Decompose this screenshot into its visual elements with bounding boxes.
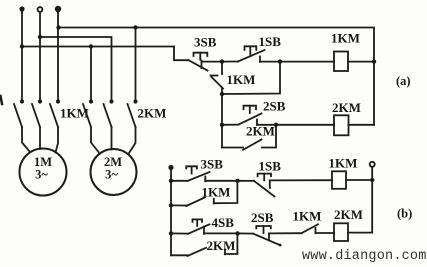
svg-text:(a): (a) (396, 74, 411, 88)
wire left rail b (170, 169, 172, 255)
wire L3 drop (57, 11, 59, 101)
wire 3SB to node C (205, 180, 237, 182)
wire coil 1KM b to rail (346, 179, 372, 181)
svg-text:2KM: 2KM (138, 106, 167, 121)
node b row2 (169, 203, 173, 207)
pushbutton 3SB circuit a (189, 53, 208, 71)
node A (220, 59, 224, 63)
svg-text:3SB: 3SB (201, 157, 224, 172)
svg-text:2SB: 2SB (263, 99, 286, 114)
wire top rail to circuit a (59, 28, 375, 125)
wire node E to coil 2KM (276, 124, 334, 126)
contactor 2KM main pole1 (83, 99, 99, 152)
coil 1KM circuit a (334, 52, 348, 72)
terminal left circuit b (168, 165, 173, 170)
svg-text:2KM: 2KM (332, 100, 361, 115)
wire coil 1KM to right rail (348, 61, 374, 63)
svg-text:4SB: 4SB (212, 215, 235, 230)
terminal L2 (38, 7, 43, 12)
node B (278, 59, 282, 63)
svg-text:2KM: 2KM (207, 238, 236, 253)
svg-text:2KM: 2KM (334, 207, 363, 222)
node 2KM pole3 tap (133, 25, 137, 29)
wire coil 2KM to right rail (349, 124, 375, 126)
wire L1 drop (21, 11, 23, 101)
wire 2SB to contact 1KM b (269, 232, 302, 234)
pushbutton 2SB circuit a (222, 106, 262, 125)
wire coil 2KM b to rail (348, 232, 372, 234)
svg-text:1KM: 1KM (227, 72, 256, 87)
wire L2 drop (39, 12, 41, 101)
node L1 tap (20, 44, 24, 48)
contact 1KM aux circuit a (211, 62, 224, 94)
contact 2KM aux circuit a (222, 125, 276, 150)
coil 2KM circuit b (334, 223, 348, 241)
pushbutton 3SB circuit b (171, 166, 210, 181)
terminal L1 (19, 6, 24, 11)
node D (235, 231, 239, 235)
svg-text:2KM: 2KM (246, 124, 275, 139)
wire 2M pole3 drop (135, 28, 137, 101)
pushbutton 4SB circuit b (171, 219, 210, 233)
contactor 1KM main pole3 (50, 99, 60, 152)
svg-text:1KM: 1KM (293, 209, 322, 224)
svg-text:1KM: 1KM (202, 185, 231, 200)
wire 2M pole1 drop (90, 47, 92, 101)
wire L2 branch (40, 37, 112, 101)
svg-text:(b): (b) (397, 207, 412, 221)
wire 1SB to node B (260, 61, 280, 63)
pushbutton 2SB circuit b (238, 226, 282, 246)
motor 1M (20, 149, 67, 196)
terminal right circuit b (370, 162, 375, 167)
pushbutton 1SB circuit b (238, 174, 275, 197)
node b row1 (169, 179, 173, 183)
node L3 tap (56, 25, 60, 29)
svg-text:2SB: 2SB (251, 210, 274, 225)
wire node B to coil 1KM (280, 61, 334, 63)
node E (274, 123, 278, 127)
wire feed to 3SB (174, 47, 189, 61)
contactor 2KM main pole3 (128, 99, 138, 153)
svg-text:1SB: 1SB (259, 34, 282, 49)
svg-text:www.diangon.com: www.diangon.com (302, 249, 427, 264)
node 2KM pole1 tap (89, 44, 93, 48)
wire L1 branch (22, 46, 174, 48)
contact 1KM aux circuit b (171, 181, 237, 206)
wire node to row 2SB (221, 94, 223, 125)
contactor 2KM main pole2 (104, 99, 114, 149)
node under 1KM aux (220, 92, 224, 96)
contactor 1KM main pole2 (32, 99, 42, 149)
scan smudge left edge (1, 96, 3, 104)
node right rail a (372, 59, 376, 63)
node C (235, 179, 239, 183)
svg-text:3~: 3~ (105, 168, 118, 182)
svg-text:3~: 3~ (35, 168, 48, 182)
pushbutton 1SB circuit a (222, 46, 265, 62)
coil 2KM circuit a (334, 115, 349, 135)
wire 1SB to coil 1KM b (270, 179, 332, 181)
svg-text:1SB: 1SB (259, 159, 282, 174)
motor 2M (91, 149, 137, 195)
wire right rail b (371, 167, 373, 233)
node row 2SB (220, 123, 224, 127)
contact 2KM aux circuit b (171, 233, 237, 256)
terminal L3 (56, 7, 61, 12)
wire 2SB to node E (257, 124, 276, 126)
wire aux bottom across (222, 62, 280, 94)
svg-text:1KM: 1KM (329, 156, 358, 171)
coil 1KM circuit b (332, 171, 346, 189)
node L2 tap (38, 35, 42, 39)
wire 4SB to node D (204, 232, 238, 234)
svg-text:1KM: 1KM (331, 31, 360, 46)
svg-text:3SB: 3SB (194, 35, 217, 50)
contactor 1KM main pole1 (14, 99, 30, 152)
node right rail b (370, 178, 374, 182)
node b row3 (169, 231, 173, 235)
wire 3SB to node A (203, 61, 222, 63)
contact 1KM series circuit b (302, 224, 335, 233)
